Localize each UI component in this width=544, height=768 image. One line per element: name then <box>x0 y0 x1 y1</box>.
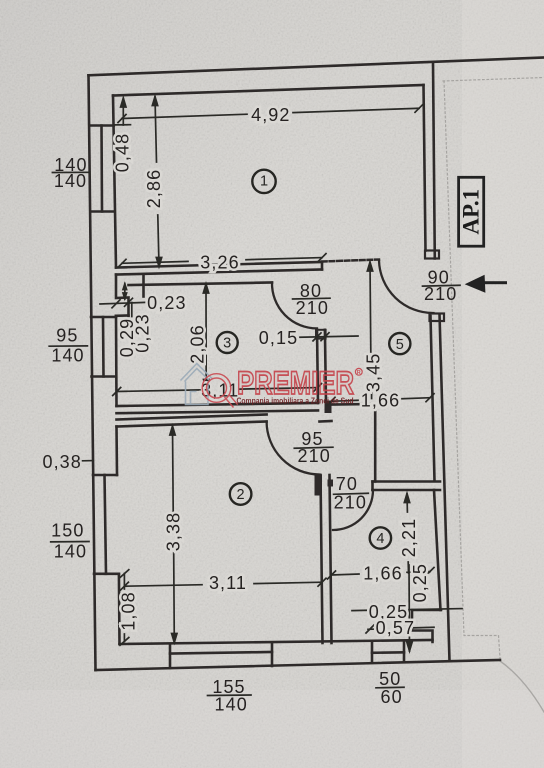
svg-text:140: 140 <box>51 345 84 365</box>
watermark red ring Q <box>202 374 238 408</box>
fraction line 95/140 <box>49 345 87 347</box>
window 140/140 left wall <box>90 124 114 127</box>
svg-text:Compania imobiliara a Zonei de: Compania imobiliara a Zonei de Sud <box>237 396 354 406</box>
svg-text:2,06: 2,06 <box>188 324 208 363</box>
svg-text:4,92: 4,92 <box>251 105 290 125</box>
wall: bottom outer edge <box>96 660 501 670</box>
AP.1 label box <box>458 177 483 246</box>
dimension text labels <box>42 105 457 715</box>
svg-text:1,66: 1,66 <box>361 390 400 410</box>
fraction line 80/210 <box>293 297 330 300</box>
wall: room1 left inner <box>113 96 116 268</box>
wall: outer top edge <box>89 58 544 76</box>
room circle 4 <box>370 527 391 548</box>
dim line 0,25 vertical right <box>407 565 412 651</box>
dim line 0,48 vertical <box>115 98 131 125</box>
dim line 3,26 <box>118 254 326 268</box>
wall: room2 top double <box>117 415 267 420</box>
wall: room3 top inner face <box>129 283 273 286</box>
svg-text:140: 140 <box>54 542 87 562</box>
room number circles <box>217 170 411 549</box>
svg-text:2: 2 <box>237 487 245 503</box>
page curl pencil curve bottom right <box>500 661 544 712</box>
svg-text:210: 210 <box>424 284 457 304</box>
door arc room2 95/210 <box>267 422 320 475</box>
wall: room1 bottom double <box>116 262 322 268</box>
svg-text:3,26: 3,26 <box>200 252 239 272</box>
dim line 3,45 vertical <box>367 262 372 399</box>
dim lines 0,23 jog <box>100 284 148 317</box>
svg-text:3: 3 <box>223 336 231 352</box>
dim line 3,38 vertical <box>170 426 177 643</box>
svg-text:3,38: 3,38 <box>163 512 183 551</box>
dim line 4,92 <box>118 104 423 122</box>
fraction line 50/60 <box>376 686 404 689</box>
wall: left jog shaft <box>116 275 129 316</box>
room circle 5 <box>389 333 410 354</box>
wall: niche steps room4 <box>412 610 441 642</box>
entry door frame block top <box>425 251 439 259</box>
door arc room4 70/210 <box>333 490 373 530</box>
watermark house icon <box>181 364 213 405</box>
window 95/140 left wall <box>91 316 116 319</box>
wall: right inner mid <box>431 316 435 481</box>
wall: room1 right inner upper <box>424 85 426 251</box>
wall: right outer edge upper <box>433 62 435 258</box>
neighbor boundary dotted line <box>443 78 544 659</box>
svg-text:0,15: 0,15 <box>259 328 298 348</box>
door frame block room3 <box>316 330 326 339</box>
dim line 3,11 room3 <box>113 384 322 396</box>
window 150/140 left wall <box>93 474 117 477</box>
svg-text:1,66: 1,66 <box>363 563 402 583</box>
wall: vestibule top <box>332 403 376 406</box>
wall: left inner between windows <box>115 316 118 406</box>
svg-text:210: 210 <box>296 298 329 318</box>
svg-text:3,45: 3,45 <box>363 353 383 392</box>
svg-text:2,21: 2,21 <box>399 518 419 557</box>
svg-text:3,11: 3,11 <box>209 573 247 593</box>
svg-text:95: 95 <box>56 325 78 345</box>
wall: room4 top double <box>373 480 441 483</box>
svg-text:R: R <box>357 370 361 376</box>
svg-text:4: 4 <box>376 531 384 547</box>
fraction line 140/140 <box>52 171 89 173</box>
door frame block room2 door bottom jamb <box>315 475 323 496</box>
svg-text:140: 140 <box>54 171 87 191</box>
window 155 bottom: end ticks and middle line <box>169 644 172 668</box>
watermark logo <box>181 364 363 408</box>
dim line 0,25 horizontal <box>352 609 368 611</box>
svg-text:1: 1 <box>260 174 268 190</box>
wall: corner stub right of room2 door <box>320 420 332 423</box>
room circle 1 <box>252 170 275 193</box>
svg-text:150: 150 <box>51 520 84 540</box>
svg-text:0,23: 0,23 <box>147 293 186 313</box>
fraction line 155/140 <box>208 694 252 697</box>
dim line 0,57 <box>366 625 434 633</box>
dim line 2,06 vertical <box>203 284 209 389</box>
dim line 2,86 vertical <box>152 97 161 267</box>
entrance arrow <box>465 275 507 293</box>
dim line 1,66 room4 <box>328 568 435 580</box>
wall: left outer edge <box>89 75 96 670</box>
wall: bottom inner <box>120 640 433 644</box>
svg-text:0,57: 0,57 <box>376 618 415 638</box>
svg-text:210: 210 <box>334 493 367 513</box>
wall: right outer edge lower <box>440 314 450 661</box>
entry door arc 90/210 <box>379 261 434 314</box>
junction block room2/room5 <box>325 401 332 414</box>
svg-text:60: 60 <box>380 687 402 707</box>
entry door frame block bottom <box>430 314 445 322</box>
svg-text:0,29: 0,29 <box>117 318 137 357</box>
svg-text:140: 140 <box>215 695 248 715</box>
wall: closet divider vertical <box>374 404 377 482</box>
wall: room2 left inner <box>115 427 118 476</box>
dimension lines <box>49 97 462 696</box>
svg-text:0,38: 0,38 <box>42 452 81 472</box>
dim line 1,66 hall <box>327 394 434 406</box>
dim line 3,11 room2 <box>120 578 326 590</box>
entry dashed opening line <box>322 260 379 262</box>
svg-text:AP.1: AP.1 <box>458 189 483 235</box>
svg-text:2,86: 2,86 <box>144 169 164 208</box>
svg-text:210: 210 <box>298 446 331 466</box>
fraction line 90/210 <box>423 284 461 287</box>
fraction line 95/210 <box>294 447 333 448</box>
room circle 2 <box>230 483 252 505</box>
window 50 bottom: end ticks and middle line <box>371 643 374 662</box>
svg-text:70: 70 <box>336 474 358 494</box>
svg-text:1,08: 1,08 <box>118 591 138 630</box>
wall: room1 top inner <box>113 85 424 96</box>
watermark registered mark <box>355 368 362 375</box>
wall: room2 right double below door <box>321 475 323 643</box>
fraction line 70/210 <box>334 493 369 494</box>
svg-text:0,25: 0,25 <box>410 563 430 602</box>
door arc room3 80/210 <box>272 283 317 329</box>
room circle 3 <box>217 332 238 353</box>
fraction line 150/140 <box>51 541 89 543</box>
svg-text:50: 50 <box>379 669 401 689</box>
svg-text:0,48: 0,48 <box>112 133 132 172</box>
door frame block room4 <box>328 480 334 487</box>
dim line 2,21 vertical <box>404 494 409 574</box>
dim pointer 0,38 <box>83 460 93 462</box>
dim line 1,08 vertical <box>120 570 129 646</box>
svg-text:5: 5 <box>396 337 404 353</box>
dim line 0,15 <box>300 333 358 341</box>
wall: room3 bottom double <box>117 403 319 406</box>
wall: room3 right wall below door <box>317 330 318 403</box>
